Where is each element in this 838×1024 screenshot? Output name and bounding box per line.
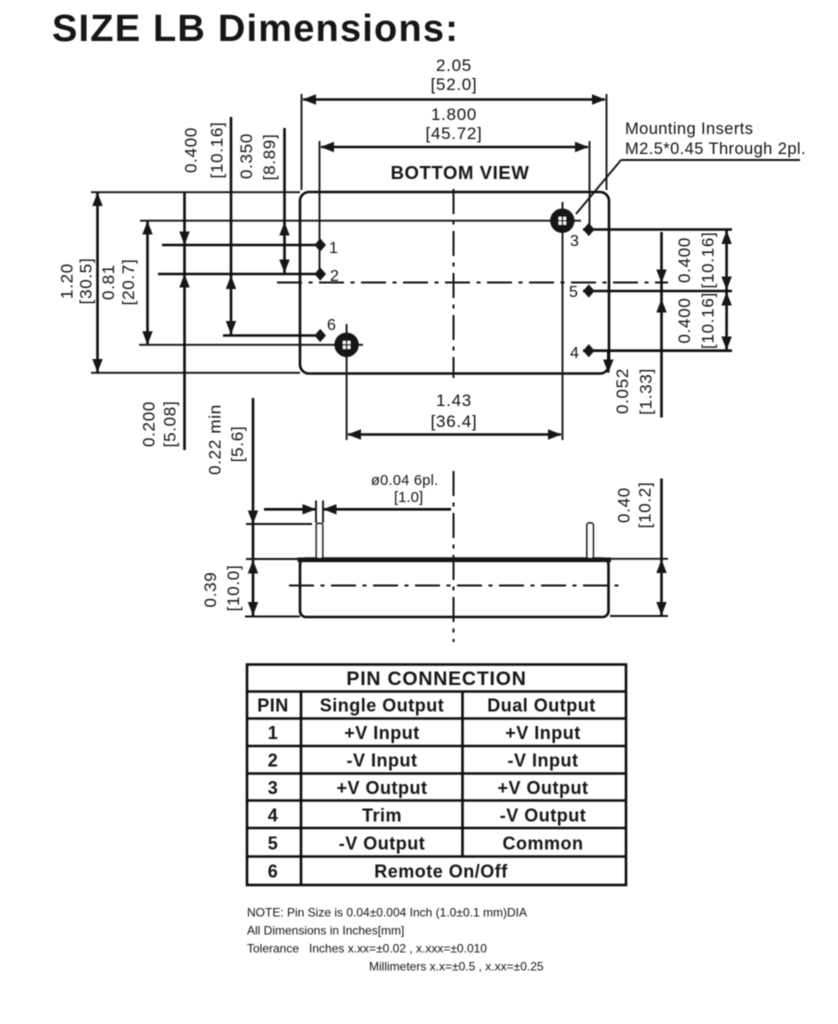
svg-text:-V Output: -V Output — [500, 806, 586, 826]
dimension 0.81 [20.7] — [99, 221, 153, 345]
svg-text:2.05: 2.05 — [436, 56, 472, 75]
svg-text:[20.7]: [20.7] — [119, 259, 138, 306]
side view left pin — [316, 524, 322, 559]
dimension 0.400 [10.16] pins 3-5 (right) — [675, 232, 718, 289]
svg-text:+V Output: +V Output — [337, 778, 428, 798]
svg-text:Tolerance Inches x.xx=±0.02: Tolerance Inches x.xx=±0.02 , x.xxx=±0.0… — [247, 942, 487, 956]
svg-text:Trim: Trim — [362, 806, 402, 826]
centerline vertical (bottom view) — [453, 189, 455, 378]
svg-text:Single Output: Single Output — [320, 696, 444, 716]
svg-text:M2.5*0.45 Through 2pl.: M2.5*0.45 Through 2pl. — [625, 140, 806, 158]
svg-text:[8.89]: [8.89] — [260, 134, 279, 181]
svg-text:2: 2 — [268, 751, 279, 771]
dimension 0.400 [10.16] pins 5-4 (right) — [675, 292, 718, 349]
svg-text:PIN: PIN — [257, 696, 289, 716]
svg-text:[36.4]: [36.4] — [431, 412, 478, 431]
svg-text:4: 4 — [570, 345, 579, 362]
svg-text:[30.5]: [30.5] — [77, 258, 96, 305]
svg-text:NOTE: Pin Size is 0.04±0.004 I: NOTE: Pin Size is 0.04±0.004 Inch (1.0±0… — [247, 906, 527, 920]
table text — [257, 668, 596, 882]
dimension 0.39 [10.0] — [201, 559, 300, 617]
svg-text:0.39: 0.39 — [201, 572, 220, 608]
svg-text:0.350: 0.350 — [237, 133, 256, 179]
dimension pin diameter 0.04 — [264, 473, 451, 523]
svg-text:0.400: 0.400 — [675, 297, 694, 343]
svg-text:0.400: 0.400 — [182, 127, 201, 173]
svg-text:6: 6 — [327, 317, 336, 334]
dimension 0.200 [5.08] pins 1-2 — [140, 192, 190, 450]
svg-text:SIZE LB Dimensions:: SIZE LB Dimensions: — [52, 8, 459, 50]
dimension 1.800 [45.72] — [320, 105, 590, 274]
svg-text:+V Input: +V Input — [505, 723, 581, 743]
svg-text:[10.16]: [10.16] — [208, 122, 227, 179]
svg-text:[52.0]: [52.0] — [431, 75, 478, 94]
dimension 1.20 [30.5] — [58, 192, 301, 373]
pin 6 — [223, 317, 336, 342]
svg-text:All Dimensions in Inches[mm]: All Dimensions in Inches[mm] — [247, 924, 404, 938]
side view centerline horizontal — [289, 585, 620, 587]
mounting insert bottom-left — [139, 324, 363, 440]
svg-text:Mounting Inserts: Mounting Inserts — [625, 120, 753, 138]
PIN CONNECTION table — [247, 665, 626, 886]
svg-text:[1.33]: [1.33] — [637, 368, 656, 415]
svg-text:3: 3 — [268, 778, 279, 798]
svg-text:Dual Output: Dual Output — [487, 696, 595, 716]
svg-text:0.40: 0.40 — [615, 487, 634, 523]
side view centerline vertical — [453, 471, 455, 642]
svg-text:BOTTOM VIEW: BOTTOM VIEW — [391, 162, 530, 183]
svg-text:+V Input: +V Input — [344, 723, 420, 743]
svg-text:Common: Common — [503, 834, 584, 854]
dimension 0.22 min [5.6] — [206, 398, 313, 617]
SIDE VIEW body — [298, 559, 612, 618]
dimension 0.40 [10.2] — [610, 479, 668, 617]
svg-text:PIN CONNECTION: PIN CONNECTION — [346, 668, 526, 690]
note mounting inserts — [576, 120, 806, 214]
svg-text:[5.6]: [5.6] — [228, 426, 247, 463]
svg-text:[10.0]: [10.0] — [224, 565, 243, 612]
pin 5 — [569, 284, 732, 301]
svg-text:[5.08]: [5.08] — [161, 401, 180, 448]
mounting insert top-right — [140, 202, 581, 440]
right inner dimension line at pin 5 — [656, 232, 666, 418]
svg-text:-V Input: -V Input — [347, 751, 418, 771]
svg-text:6: 6 — [268, 862, 279, 882]
dimension 0.400 [10.16] pins 2-6 — [182, 117, 237, 335]
dimension 2.05 [52.0] — [302, 56, 607, 190]
svg-text:[10.16]: [10.16] — [699, 232, 718, 289]
svg-text:+V Output: +V Output — [498, 778, 589, 798]
side view right pin — [587, 523, 593, 559]
svg-text:Remote On/Off: Remote On/Off — [374, 862, 508, 882]
svg-text:0.052: 0.052 — [613, 368, 632, 414]
svg-text:0.81: 0.81 — [99, 264, 118, 300]
pin 3 — [570, 223, 732, 250]
notes — [247, 906, 544, 974]
svg-text:-V Output: -V Output — [339, 834, 425, 854]
svg-text:2: 2 — [330, 268, 339, 285]
svg-text:Millimeters x.x=±0.5 , x.xx=±0: Millimeters x.x=±0.5 , x.xx=±0.25 — [369, 960, 544, 974]
pin 1 — [162, 238, 338, 257]
package outline BOTTOM VIEW — [300, 192, 609, 374]
svg-text:3: 3 — [570, 233, 579, 250]
dimension 1.43 [36.4] — [348, 391, 562, 440]
right dimension line with two arrow pairs — [721, 231, 731, 351]
pin 2 — [158, 267, 339, 285]
svg-text:ø0.04 6pl.: ø0.04 6pl. — [371, 473, 439, 489]
svg-text:[1.0]: [1.0] — [394, 489, 423, 506]
svg-text:[10.16]: [10.16] — [699, 292, 718, 349]
dimension 0.350 [8.89] — [237, 128, 290, 274]
svg-text:1.800: 1.800 — [431, 105, 477, 124]
svg-text:[45.72]: [45.72] — [426, 124, 483, 143]
dimension 0.052 [1.33] — [603, 351, 655, 415]
svg-text:5: 5 — [569, 284, 578, 301]
pin 4 — [570, 344, 732, 362]
svg-text:1.43: 1.43 — [436, 391, 472, 410]
svg-text:0.200: 0.200 — [140, 401, 159, 447]
svg-text:4: 4 — [268, 806, 279, 826]
svg-text:1.20: 1.20 — [58, 263, 77, 299]
svg-text:1: 1 — [268, 723, 279, 743]
svg-text:0.22 min: 0.22 min — [206, 404, 225, 475]
centerline horizontal (bottom view) — [277, 282, 668, 284]
svg-text:[10.2]: [10.2] — [636, 482, 655, 529]
svg-text:5: 5 — [268, 834, 279, 854]
svg-text:1: 1 — [329, 240, 338, 257]
svg-text:-V Input: -V Input — [508, 751, 579, 771]
svg-text:0.400: 0.400 — [675, 237, 694, 283]
